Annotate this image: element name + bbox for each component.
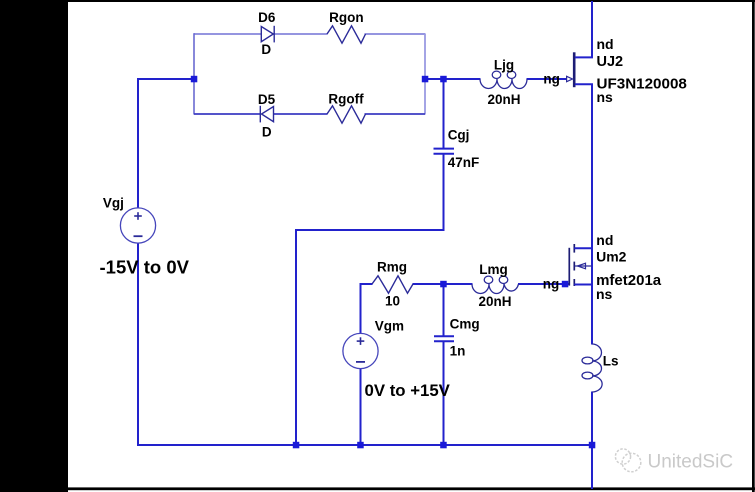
wire: bottom branch left segment to D5	[194, 113, 261, 115]
svg-text:ns: ns	[597, 89, 614, 105]
wire: Cmg bottom to ground rail	[443, 341, 445, 446]
svg-text:Rgon: Rgon	[329, 10, 364, 25]
wire: Um2 source down to Ls	[591, 284, 593, 345]
svg-text:Cmg: Cmg	[450, 317, 480, 332]
svg-text:1n: 1n	[450, 344, 466, 359]
node: ground rail / Cgj leg	[293, 442, 300, 449]
inductor Ls	[582, 344, 602, 392]
wire: Rgoff right segment	[365, 113, 426, 115]
wire: bottom ground rail	[137, 444, 593, 446]
node: loop re-join	[422, 76, 429, 83]
wire: top drain feed into UJ2 drain	[591, 1, 593, 58]
svg-text:ng: ng	[543, 72, 560, 87]
JFET UJ2	[567, 52, 593, 87]
node: gate loop split	[191, 76, 198, 83]
wire: horizontal run from Cgj leg to left drop	[295, 229, 445, 231]
wire: Rmg left lead corner	[361, 283, 373, 285]
wire: Ljg right to UJ2 gate arrow	[527, 78, 568, 80]
svg-text:10: 10	[385, 294, 400, 309]
inductor Lmg	[472, 276, 519, 293]
diode D5	[260, 106, 273, 123]
wire: Vgm bottom lead to ground rail	[360, 369, 362, 447]
MOSFET Um2	[569, 244, 593, 286]
svg-text:D: D	[261, 42, 271, 57]
wire: Rgon right segment	[365, 33, 426, 35]
wire: left vertical from node to Vgj plus terminal	[137, 78, 139, 208]
wire: Cgj top connection	[443, 79, 445, 149]
voltage source Vgm	[343, 333, 378, 368]
wire: Lmg right to Um2 gate node	[518, 283, 570, 285]
wire: Cmg top connection	[443, 284, 445, 337]
svg-text:20nH: 20nH	[487, 92, 520, 107]
svg-text:47nF: 47nF	[448, 155, 480, 170]
wire: Vgj minus terminal down to ground rail	[137, 243, 139, 446]
svg-text:UJ2: UJ2	[597, 54, 624, 70]
wire: UJ2 source to Um2 drain	[591, 84, 593, 249]
wire: left drop of Cgj leg to ground rail	[295, 230, 297, 446]
wire: top branch left segment to D6 anode	[194, 33, 262, 35]
voltage source Vgj	[120, 208, 155, 243]
svg-text:0V to +15V: 0V to +15V	[365, 381, 451, 400]
svg-text:20nH: 20nH	[478, 294, 511, 309]
wire: D5 to Rgoff	[274, 113, 328, 115]
capacitor Cgj	[434, 149, 455, 154]
svg-text:-15V to 0V: -15V to 0V	[100, 257, 190, 278]
wire: Vgm top lead	[360, 283, 362, 334]
svg-text:UnitedSiC: UnitedSiC	[648, 452, 734, 473]
svg-text:Rmg: Rmg	[377, 259, 407, 274]
svg-text:Cgj: Cgj	[448, 128, 470, 143]
svg-text:Um2: Um2	[596, 249, 627, 265]
resistor Rgoff	[327, 106, 366, 123]
svg-text:Rgoff: Rgoff	[328, 92, 364, 107]
svg-text:Vgm: Vgm	[375, 319, 404, 334]
svg-text:Lmg: Lmg	[479, 262, 508, 277]
diode D6	[261, 26, 274, 43]
node: Cgj tap on gate line	[440, 76, 447, 83]
svg-text:D5: D5	[258, 92, 276, 107]
svg-text:D6: D6	[258, 10, 276, 25]
UnitedSiC watermark logo	[615, 449, 640, 472]
svg-text:nd: nd	[596, 232, 613, 248]
node: ground rail / Cmg leg	[440, 442, 447, 449]
wire: stub from left rail to gate-loop node	[138, 78, 192, 80]
svg-text:Ljg: Ljg	[494, 58, 514, 73]
wire: Cgj bottom down	[443, 154, 445, 231]
svg-text:Vgj: Vgj	[103, 196, 124, 211]
node: ng at Um2 gate	[562, 281, 569, 288]
wire: D6 cathode to Rgon	[274, 33, 328, 35]
wire: right vertical of branch loop	[424, 34, 426, 115]
node: ground rail / source leg	[589, 442, 596, 449]
node: Cmg tap on Um2 gate line	[440, 281, 447, 288]
wire: node to Ljg left	[425, 78, 481, 80]
svg-text:D: D	[262, 125, 272, 140]
svg-text:ng: ng	[543, 277, 560, 292]
node: ground rail / Vgm leg	[357, 442, 364, 449]
inductor Ljg	[480, 71, 527, 88]
resistor Rgon	[327, 26, 366, 43]
wire: Rmg right to Lmg left	[413, 283, 473, 285]
resistor Rmg	[372, 276, 413, 293]
capacitor Cmg	[434, 336, 454, 341]
svg-text:ns: ns	[596, 286, 613, 302]
svg-text:Ls: Ls	[603, 354, 619, 369]
wire: Ls bottom through rail node to bottom edge	[591, 392, 593, 490]
wire: left vertical of branch loop	[193, 33, 195, 114]
svg-text:nd: nd	[597, 36, 614, 52]
